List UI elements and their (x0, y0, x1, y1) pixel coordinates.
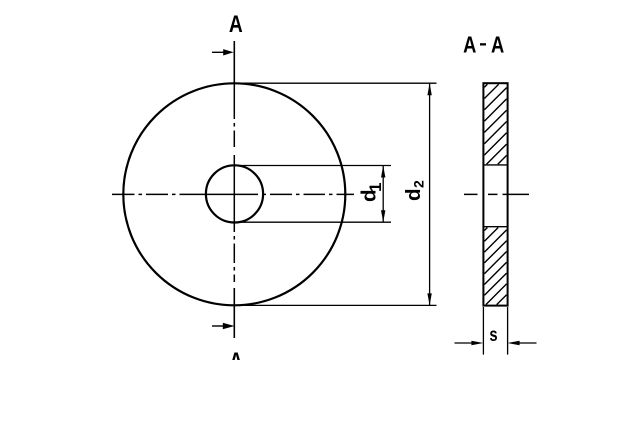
section centerline (464, 193, 529, 195)
cut arrow top (212, 51, 225, 53)
hole boundary top (483, 164, 507, 166)
label A-A (463, 33, 504, 59)
section rect (483, 83, 507, 305)
d1 dimension line (382, 166, 384, 223)
section cut line bottom (233, 288, 235, 338)
svg-text:d: d (402, 188, 425, 201)
svg-text:s: s (489, 324, 497, 345)
svg-text:1: 1 (366, 183, 385, 192)
section cut line top (233, 41, 235, 83)
s extension line right (507, 307, 509, 355)
label d2 (402, 180, 427, 201)
hatch bottom block (484, 228, 506, 305)
hole boundary bottom (483, 226, 507, 228)
svg-text:A: A (491, 33, 504, 59)
svg-text:2: 2 (411, 180, 427, 188)
svg-text:A: A (229, 10, 243, 38)
washer outer circle (123, 83, 345, 305)
s dimension right (518, 342, 537, 344)
label A bottom (clipped) (229, 347, 243, 375)
s extension line left (482, 307, 484, 355)
hatch top block (484, 84, 506, 164)
d2 extension line top (235, 82, 437, 84)
d1 extension line bottom (235, 221, 391, 223)
washer hole circle (206, 165, 263, 222)
horizontal centerline (112, 193, 354, 195)
label d1 (358, 183, 385, 202)
s dimension left (455, 342, 474, 344)
svg-text:A: A (463, 33, 476, 59)
d1 extension line top (235, 165, 391, 167)
cut arrow bottom (212, 325, 225, 327)
d2 dimension line (429, 83, 431, 305)
vertical centerline (233, 83, 235, 282)
d2 extension line bottom (235, 304, 437, 306)
